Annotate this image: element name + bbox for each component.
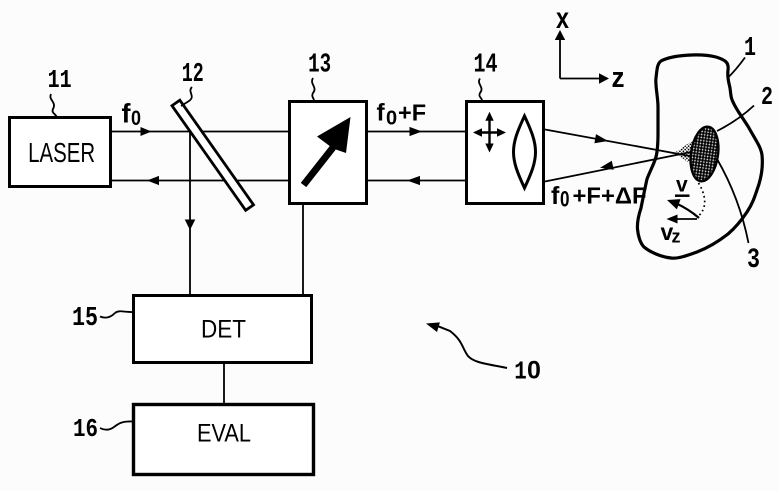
- svg-text:LASER: LASER: [28, 137, 95, 168]
- svg-text:x: x: [556, 2, 569, 35]
- svg-text:1: 1: [514, 357, 527, 387]
- svg-text:z: z: [672, 227, 681, 247]
- svg-text:16: 16: [73, 414, 98, 444]
- svg-text:0: 0: [131, 106, 141, 130]
- svg-text:v: v: [676, 173, 688, 196]
- svg-text:0: 0: [386, 108, 397, 130]
- svg-text:1: 1: [744, 34, 756, 64]
- svg-text:14: 14: [474, 50, 498, 80]
- svg-text:EVAL: EVAL: [197, 420, 251, 448]
- svg-text:13: 13: [308, 50, 331, 80]
- svg-text:0: 0: [527, 357, 541, 385]
- svg-text:3: 3: [747, 245, 760, 276]
- svg-text:2: 2: [761, 82, 773, 112]
- svg-text:+F+ΔF: +F+ΔF: [573, 183, 647, 209]
- svg-text:z: z: [612, 62, 625, 94]
- svg-text:11: 11: [48, 65, 72, 95]
- svg-text:DET: DET: [201, 316, 246, 344]
- svg-text:12: 12: [182, 60, 204, 90]
- svg-text:+F: +F: [398, 100, 426, 126]
- svg-text:15: 15: [72, 304, 98, 334]
- svg-text:0: 0: [560, 187, 570, 212]
- svg-text:f: f: [122, 99, 132, 129]
- svg-text:f: f: [551, 182, 560, 210]
- svg-text:f: f: [377, 100, 386, 127]
